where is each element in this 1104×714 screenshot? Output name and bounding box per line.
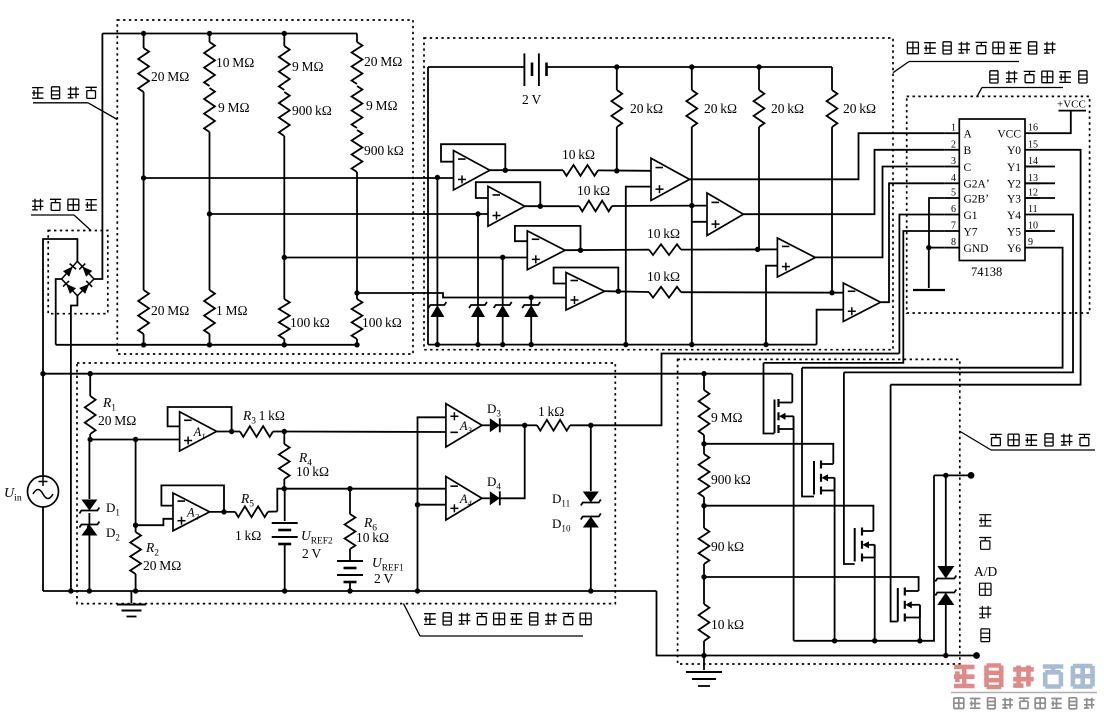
wire Uin top lead	[42, 374, 44, 476]
svg-text:C: C	[964, 162, 972, 174]
junction bottom bus col4	[354, 342, 359, 347]
label 输入信号有无判断电路 callout	[424, 614, 436, 625]
wire M4 source down to source bus	[919, 605, 921, 641]
svg-text:1 MΩ: 1 MΩ	[216, 303, 248, 318]
wire bridge left corner to divider bottom bus	[56, 279, 62, 345]
svg-text:1 kΩ: 1 kΩ	[538, 404, 564, 419]
svg-text:VCC: VCC	[997, 129, 1021, 141]
wire comp1 plus to ground rail	[626, 187, 651, 345]
junction ladder node2	[701, 441, 706, 446]
junction source bus M2	[832, 638, 837, 643]
svg-text:20 MΩ: 20 MΩ	[364, 54, 402, 69]
resistor R4 10kΩ	[283, 432, 285, 445]
wire tap1 to buffer A input	[144, 177, 454, 179]
svg-text:900 kΩ: 900 kΩ	[364, 143, 404, 158]
wire M3 source down to source bus	[874, 545, 876, 641]
junction top bus col1	[141, 31, 146, 36]
junction bottom bus col2	[207, 342, 212, 347]
ground symbol gear circuit	[703, 656, 705, 671]
junction rail D10	[588, 588, 593, 593]
svg-text:7: 7	[951, 221, 956, 232]
pin 2 B of 74138	[944, 149, 959, 151]
svg-text:5: 5	[951, 188, 956, 199]
diode D3	[482, 424, 490, 426]
wire M3 gate lead	[844, 372, 855, 564]
label 隔离和电压判断电路 callout	[907, 42, 918, 54]
junction divider tap3	[282, 255, 287, 260]
junction source bus M3	[872, 638, 877, 643]
wire buffer2 feedback	[476, 182, 541, 206]
resistor 900kΩ (divider col4)	[352, 130, 363, 172]
label 分压电路 callout	[32, 88, 43, 99]
junction buffer4 output	[616, 289, 621, 294]
wire D4 to D3 junction	[500, 425, 525, 498]
junction rail bridge return	[68, 588, 73, 593]
comparator 3	[777, 238, 815, 277]
box input-signal-presence judgment section (输入信号有无判断电路)	[77, 363, 615, 604]
svg-text:900 kΩ: 900 kΩ	[711, 472, 751, 487]
junction buffer1 output	[503, 168, 508, 173]
pin 6 G1 of 74138	[944, 214, 959, 216]
wire M1 source down to source bus	[793, 416, 795, 641]
junction divider tap1	[141, 175, 146, 180]
svg-text:1 kΩ: 1 kΩ	[235, 528, 261, 543]
wire Y3 stub	[1025, 197, 1055, 199]
diode bridge rectifier	[62, 261, 94, 296]
MOSFET M1 (20MΩ range switch)	[777, 399, 779, 407]
svg-text:9 MΩ: 9 MΩ	[366, 98, 398, 113]
junction divider tap2	[207, 211, 212, 216]
wire M3 drain to ladder node3	[704, 506, 873, 531]
resistor R5 1kΩ	[210, 511, 235, 513]
junction zener3 top	[500, 255, 505, 260]
IC 74138 decoder	[959, 119, 1025, 261]
resistor R2 20MΩ	[135, 525, 137, 532]
svg-text:Y4: Y4	[1007, 210, 1021, 222]
box rectifier section (整流电路)	[48, 231, 108, 314]
wire Y5 stub	[1025, 230, 1055, 232]
resistor 9MΩ (MOS ladder)	[703, 374, 705, 390]
pin 10 Y5 of 74138	[1025, 230, 1040, 232]
resistor 20kΩ (pullup 4)	[831, 67, 833, 90]
svg-text:20 MΩ: 20 MΩ	[151, 69, 189, 84]
junction rail A3/A4 ground column	[415, 588, 420, 593]
svg-text:8: 8	[951, 237, 956, 248]
junction bottom bus col3	[282, 342, 287, 347]
wire MOSFET source bus	[794, 475, 934, 640]
watermark 易迪拓培训 logo	[954, 667, 975, 686]
wire M4 drain to ladder node4	[704, 577, 919, 591]
resistor 9MΩ (divider col2)	[204, 88, 215, 132]
junction A1 output	[229, 429, 234, 434]
box voltage-divider section (分压电路)	[117, 20, 413, 354]
zener D10	[581, 514, 601, 520]
resistor R3 1kΩ	[217, 431, 240, 433]
resistor 90kΩ (MOS ladder)	[703, 506, 705, 528]
svg-text:10 kΩ: 10 kΩ	[711, 617, 744, 632]
wire G1 enable from signal-presence line	[899, 215, 944, 354]
wire Y0 to M4 gate	[890, 150, 1080, 385]
wire comp3 plus to ground rail	[766, 266, 777, 345]
battery UREF2 2V	[284, 489, 286, 521]
pin 9 Y6 of 74138	[1025, 247, 1040, 249]
resistor 900kΩ (divider col3)	[279, 92, 290, 136]
junction ladder node3	[701, 503, 706, 508]
wire buffer4 feedback	[554, 268, 619, 292]
resistor 100kΩ (divider col3 lower)	[283, 258, 285, 300]
junction A2 plus node	[133, 523, 138, 528]
junction R6 top	[347, 486, 352, 491]
junction zener2 bottom	[475, 342, 480, 347]
junction GND/G2B tie	[926, 245, 931, 250]
junction comp2 minus node	[689, 203, 694, 208]
svg-text:11: 11	[1028, 204, 1038, 215]
terminal ground output	[973, 652, 980, 659]
wire Uin bottom lead	[42, 507, 44, 591]
svg-text:9 MΩ: 9 MΩ	[711, 410, 743, 425]
wire bridge top corner to Uin+ (AC input)	[43, 239, 77, 374]
pin 4 G2A-bar of 74138	[944, 182, 959, 184]
zener clamp upper (output)	[945, 475, 947, 566]
wire A1 feedback	[168, 407, 232, 432]
resistor 10kΩ (stage 1)	[490, 169, 563, 171]
diode D4	[482, 497, 490, 499]
label 档位判断电路 callout	[990, 71, 998, 83]
resistor 10kΩ (stage 3)	[565, 249, 649, 252]
svg-text:GND: GND	[964, 243, 989, 255]
wire comp4 output to 74138 pin G2A	[881, 183, 945, 302]
resistor 10kΩ (stage 4)	[605, 290, 650, 293]
junction presence output node	[588, 423, 593, 428]
wire M2 source down to source bus	[834, 478, 836, 641]
junction top bus col3	[282, 31, 287, 36]
svg-text:10 kΩ: 10 kΩ	[647, 269, 680, 284]
wire Y6 to M2 gate	[802, 248, 1063, 368]
power +VCC	[1040, 111, 1071, 134]
wire GND pin to ground	[929, 247, 945, 249]
wire tap4 to buffer D input	[357, 293, 566, 298]
wire Y4 to M3 gate	[844, 215, 1073, 373]
resistor R1 20MΩ	[89, 374, 91, 396]
box isolation and voltage judgment section (隔离和电压判断电路)	[424, 38, 893, 350]
junction zener4 bottom	[529, 342, 534, 347]
zener clamp 4 (isolation input)	[530, 298, 532, 306]
wire divider top bus	[102, 33, 357, 35]
junction zener1 bottom	[435, 342, 440, 347]
battery 2V (isolation reference)	[428, 66, 524, 68]
svg-text:10 kΩ: 10 kΩ	[647, 226, 680, 241]
svg-text:15: 15	[1028, 139, 1038, 150]
junction rail at Uin	[40, 371, 45, 376]
op-amp A4	[446, 477, 482, 521]
box gear opening section (档位开启电路)	[678, 359, 960, 664]
wire A2 plus input step	[136, 519, 173, 525]
svg-text:6: 6	[951, 204, 956, 215]
svg-text:10 kΩ: 10 kΩ	[577, 183, 610, 198]
svg-text:90 kΩ: 90 kΩ	[711, 539, 744, 554]
junction A3/A4 ground column at A4 plus	[415, 502, 420, 507]
junction zener4 top	[529, 295, 534, 300]
svg-text:9 MΩ: 9 MΩ	[292, 59, 324, 74]
wire presence output to gear-opening circuit	[591, 354, 900, 426]
wire input top rail (Uin+ to ladder and M1 drain)	[43, 373, 792, 375]
svg-text:Y7: Y7	[964, 226, 978, 238]
resistor 1kΩ (presence output)	[525, 424, 537, 426]
wire tap3 to buffer C input	[284, 257, 527, 259]
svg-text:14: 14	[1028, 156, 1038, 167]
wire node Y line (R4/R5/R6/UREF2 to A4 minus)	[277, 489, 446, 512]
svg-text:10 MΩ: 10 MΩ	[216, 55, 254, 70]
svg-text:2: 2	[951, 139, 956, 150]
svg-text:2 V: 2 V	[302, 546, 321, 561]
svg-text:A: A	[964, 129, 973, 141]
junction D3/D4 outputs	[522, 423, 527, 428]
svg-text:20 MΩ: 20 MΩ	[151, 303, 189, 318]
zener clamp 2 (isolation input)	[477, 214, 479, 305]
svg-text:10 kΩ: 10 kΩ	[356, 530, 389, 545]
junction rail UREF1	[347, 588, 352, 593]
junction ground rail comp3	[763, 342, 768, 347]
junction rail at MOS ladder	[701, 371, 706, 376]
wire comp2 output to 74138 pin B	[743, 150, 944, 214]
op-amp buffer 2	[488, 186, 525, 226]
wire M2 drain to ladder node2	[704, 444, 833, 464]
svg-text:2 V: 2 V	[522, 92, 541, 107]
op-amp A1	[180, 412, 217, 451]
wire comp1 output to 74138 pin A	[690, 133, 945, 179]
svg-text:20 kΩ: 20 kΩ	[630, 101, 663, 116]
junction 2V rail col1	[614, 64, 619, 69]
svg-text:G2Aʼ: G2Aʼ	[964, 179, 990, 191]
wire divider bottom bus	[56, 344, 357, 346]
junction ground rail comp2	[689, 342, 694, 347]
svg-text:900 kΩ: 900 kΩ	[292, 103, 332, 118]
svg-text:20 kΩ: 20 kΩ	[843, 101, 876, 116]
wire A2 feedback	[161, 485, 224, 512]
junction rail UREF2	[282, 588, 287, 593]
wire tap2 to buffer B input	[210, 213, 489, 215]
wire A4 plus lead	[418, 504, 446, 506]
junction comp4 minus node	[829, 290, 834, 295]
wire R3 node to A3 minus	[284, 431, 446, 434]
pin 14 Y1 of 74138	[1025, 166, 1040, 168]
junction 2V rail col2	[689, 64, 694, 69]
wire M2 gate lead	[802, 368, 814, 497]
wire Y2 stub	[1025, 182, 1055, 184]
junction R4 bottom node Y	[282, 486, 287, 491]
wire 2V battery negative to ground rail	[427, 67, 429, 345]
pin 15 Y0 of 74138	[1025, 149, 1040, 151]
svg-text:10: 10	[1028, 221, 1038, 232]
junction rail at R1	[88, 371, 93, 376]
battery UREF1 2V	[337, 560, 363, 562]
resistor 20kΩ (pullup 1)	[616, 67, 618, 90]
ground symbol 74138	[928, 248, 930, 288]
svg-text:Y5: Y5	[1007, 226, 1021, 238]
wire G2B tie to GND	[929, 198, 944, 248]
MOSFET M4 (20kΩ range switch)	[904, 588, 906, 596]
junction ladder bottom	[701, 653, 706, 658]
junction A1 plus / D-column	[133, 437, 138, 442]
wire bridge right corner to divider top bus	[94, 34, 102, 280]
pin 11 Y4 of 74138	[1025, 214, 1040, 216]
wire M1 drain to top rail	[791, 374, 793, 403]
svg-text:100 kΩ: 100 kΩ	[290, 315, 330, 330]
junction zener2 top	[475, 211, 480, 216]
resistor 20MΩ (divider col1 upper)	[143, 34, 145, 49]
svg-text:B: B	[964, 145, 972, 157]
pin 8 GND of 74138	[944, 247, 959, 249]
resistor 20MΩ (divider col1 lower)	[143, 178, 145, 290]
label 整流电路 callout	[32, 199, 43, 211]
wire buffer3 feedback	[515, 226, 581, 250]
svg-text:Y3: Y3	[1007, 193, 1021, 205]
op-amp buffer 4	[566, 273, 605, 311]
pin 12 Y3 of 74138	[1025, 197, 1040, 199]
resistor 20MΩ (divider col4)	[356, 34, 358, 43]
pin 5 G2B-bar of 74138	[944, 197, 959, 199]
zener clamp 3 (isolation input)	[502, 257, 504, 305]
junction bottom bus col1	[141, 342, 146, 347]
svg-text:16: 16	[1028, 123, 1038, 134]
junction rail D2	[87, 588, 92, 593]
svg-text:20 MΩ: 20 MΩ	[98, 413, 136, 428]
svg-text:20 kΩ: 20 kΩ	[771, 101, 804, 116]
resistor 10MΩ (divider col2)	[209, 34, 211, 43]
terminal A/D output	[968, 472, 975, 479]
wire A3 plus to ground column	[418, 417, 446, 591]
wire isolation ground rail	[428, 344, 817, 346]
junction ladder node4	[701, 574, 706, 579]
wire comp4 plus to ground rail	[817, 310, 844, 345]
zener D11	[590, 425, 592, 491]
junction top bus col2	[207, 31, 212, 36]
resistor 20kΩ (pullup 2)	[691, 67, 693, 90]
op-amp A2	[173, 493, 210, 531]
junction output zener top	[943, 473, 948, 478]
AC source Uin	[28, 476, 59, 507]
junction output zener bottom	[943, 653, 948, 658]
svg-text:10 kΩ: 10 kΩ	[562, 147, 595, 162]
MOSFET M2 (2MΩ range switch)	[820, 461, 822, 469]
pin 1 A of 74138	[944, 132, 959, 134]
comparator 1	[651, 158, 690, 200]
junction ground rail comp1	[623, 342, 628, 347]
svg-text:Y6: Y6	[1007, 243, 1021, 255]
junction zener1 top	[435, 175, 440, 180]
junction R1 bottom	[88, 437, 93, 442]
wire Y7 to M1 gate	[764, 231, 945, 363]
wire ground link to gear circuit	[657, 591, 977, 656]
wire A1 plus input line	[90, 439, 179, 441]
wire D-column link	[135, 440, 137, 526]
watermark slogan 射频和天线设计专家	[954, 698, 964, 709]
junction A2 output	[221, 509, 226, 514]
resistor 9MΩ (divider col4)	[352, 86, 363, 128]
svg-text:G1: G1	[964, 210, 978, 222]
wire input box ground rail	[43, 590, 657, 592]
junction 2V rail col3	[756, 64, 761, 69]
resistor 10kΩ (MOS ladder)	[703, 577, 705, 604]
zener D2	[87, 513, 89, 528]
junction comp3 minus node	[755, 247, 760, 252]
wire A/D output node	[934, 474, 971, 476]
op-amp A3	[446, 404, 482, 447]
op-amp buffer 1	[454, 151, 490, 191]
wire comp2 plus to ground rail	[692, 222, 707, 345]
label 送至A/D转换器 (to A/D converter)	[979, 515, 991, 526]
wire comp3 output to 74138 pin C	[815, 167, 944, 258]
svg-text:100 kΩ: 100 kΩ	[362, 315, 402, 330]
wire bridge bottom corner to ground rail	[71, 296, 78, 591]
comparator 4	[843, 283, 880, 322]
box gear judgment section (档位判断电路)	[907, 96, 1090, 313]
wire M1 gate lead	[764, 363, 775, 434]
svg-text:+VCC: +VCC	[1057, 99, 1086, 111]
pin 13 Y2 of 74138	[1025, 182, 1040, 184]
junction buffer2 output	[538, 204, 543, 209]
svg-text:10 kΩ: 10 kΩ	[296, 464, 329, 479]
resistor R6 10kΩ	[349, 489, 351, 514]
junction divider tap4	[354, 290, 359, 295]
junction comp1 minus node	[614, 168, 619, 173]
pin 7 Y7 of 74138	[944, 230, 959, 232]
junction buffer3 output	[578, 248, 583, 253]
svg-text:13: 13	[1028, 173, 1038, 184]
svg-text:74138: 74138	[971, 265, 1002, 279]
resistor 9MΩ (divider col3)	[283, 34, 285, 47]
ground symbol input box	[130, 591, 132, 603]
svg-text:1: 1	[951, 123, 956, 134]
comparator 2	[707, 193, 743, 236]
pin 3 C of 74138	[944, 166, 959, 168]
junction source bus M4	[917, 638, 922, 643]
zener D1	[88, 440, 90, 500]
wire M4 gate lead	[891, 385, 898, 622]
zener clamp 1 (isolation input)	[436, 178, 438, 306]
junction rail R2	[133, 588, 138, 593]
svg-text:12: 12	[1028, 188, 1038, 199]
svg-text:3: 3	[951, 156, 956, 167]
resistor 900kΩ (MOS ladder)	[703, 444, 705, 454]
resistor 1MΩ (divider col2 lower)	[209, 214, 211, 290]
svg-text:9: 9	[1028, 237, 1033, 248]
label 档位开启电路 callout	[990, 434, 1002, 445]
resistor 10kΩ (stage 2)	[525, 205, 579, 207]
wire buffer1 feedback	[441, 144, 505, 170]
svg-text:G2Bʼ: G2Bʼ	[964, 193, 990, 205]
pin 16 VCC of 74138	[1025, 132, 1040, 134]
svg-text:Y2: Y2	[1007, 179, 1021, 191]
svg-text:20 kΩ: 20 kΩ	[704, 101, 737, 116]
MOSFET M3 (200kΩ range switch)	[861, 528, 863, 536]
svg-text:2 V: 2 V	[374, 571, 393, 586]
svg-text:A/D: A/D	[974, 564, 998, 579]
junction R3/R4 node	[282, 429, 287, 434]
svg-text:Y0: Y0	[1007, 145, 1021, 157]
svg-text:20 MΩ: 20 MΩ	[143, 558, 181, 573]
op-amp buffer 3	[527, 231, 565, 270]
resistor 100kΩ (divider col4 lower)	[356, 293, 358, 299]
svg-text:Y1: Y1	[1007, 162, 1021, 174]
resistor 20kΩ (pullup 3)	[758, 67, 760, 90]
junction zener3 bottom	[500, 342, 505, 347]
zener clamp lower (output)	[935, 590, 956, 596]
svg-text:9 MΩ: 9 MΩ	[218, 100, 250, 115]
wire Y1 stub	[1025, 166, 1055, 168]
svg-text:4: 4	[951, 173, 956, 184]
